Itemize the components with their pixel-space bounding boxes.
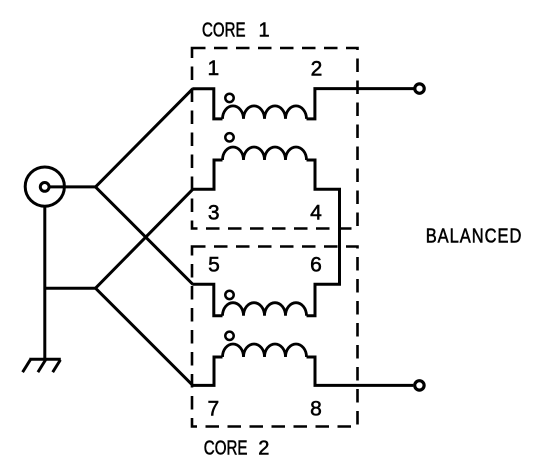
unbalanced input connector J1	[25, 167, 64, 206]
svg-text:1: 1	[207, 57, 219, 80]
svg-text:4: 4	[310, 202, 322, 225]
svg-text:BALANCED: BALANCED	[426, 226, 523, 248]
pin 7 lead	[192, 357, 222, 385]
wire: connector center to fan node	[50, 185, 96, 188]
polarity dot L3	[225, 291, 233, 299]
svg-text:1: 1	[258, 20, 269, 42]
polarity dot L2	[225, 133, 233, 141]
ground	[23, 359, 61, 372]
wire: pin 4 to pin 6 junction	[307, 160, 340, 316]
pin 3 lead	[192, 160, 222, 189]
wire: connector shell down leg	[43, 206, 46, 358]
svg-text:3: 3	[208, 202, 220, 225]
svg-text:CORE: CORE	[204, 438, 248, 460]
svg-text:CORE: CORE	[202, 20, 246, 42]
winding L4 (pins 7-8, core 2)	[223, 344, 307, 357]
svg-text:5: 5	[208, 254, 220, 277]
winding L2 (pins 3-4, core 1)	[223, 147, 307, 160]
svg-text:2: 2	[311, 58, 323, 81]
svg-text:8: 8	[310, 398, 322, 421]
svg-text:2: 2	[258, 438, 269, 460]
core 2 boundary (dashed box)	[192, 247, 358, 427]
wire: diagonal branch to pin 3	[96, 189, 193, 288]
wire: diagonal fan to pin 1	[96, 89, 193, 187]
winding L1 (pins 1-2, core 1)	[223, 106, 307, 119]
pin 1 lead	[192, 89, 222, 119]
wire: lower branch horizontal	[45, 287, 96, 290]
wire: diagonal fan to pin 5	[96, 187, 193, 284]
polarity dot L4	[225, 332, 233, 340]
wire: diagonal branch to pin 7	[96, 288, 193, 385]
core 1 boundary (dashed box)	[192, 48, 358, 229]
pin 2 lead to top balanced terminal	[307, 89, 414, 119]
svg-text:6: 6	[310, 254, 322, 277]
winding L3 (pins 5-6, core 2)	[223, 303, 307, 316]
pin 5 lead	[192, 284, 222, 315]
balanced output terminal (top)	[415, 84, 424, 93]
svg-text:7: 7	[207, 398, 219, 421]
balanced output terminal (bottom)	[415, 381, 424, 390]
pin 8 lead to bottom balanced terminal	[307, 357, 414, 385]
polarity dot L1	[225, 94, 233, 102]
